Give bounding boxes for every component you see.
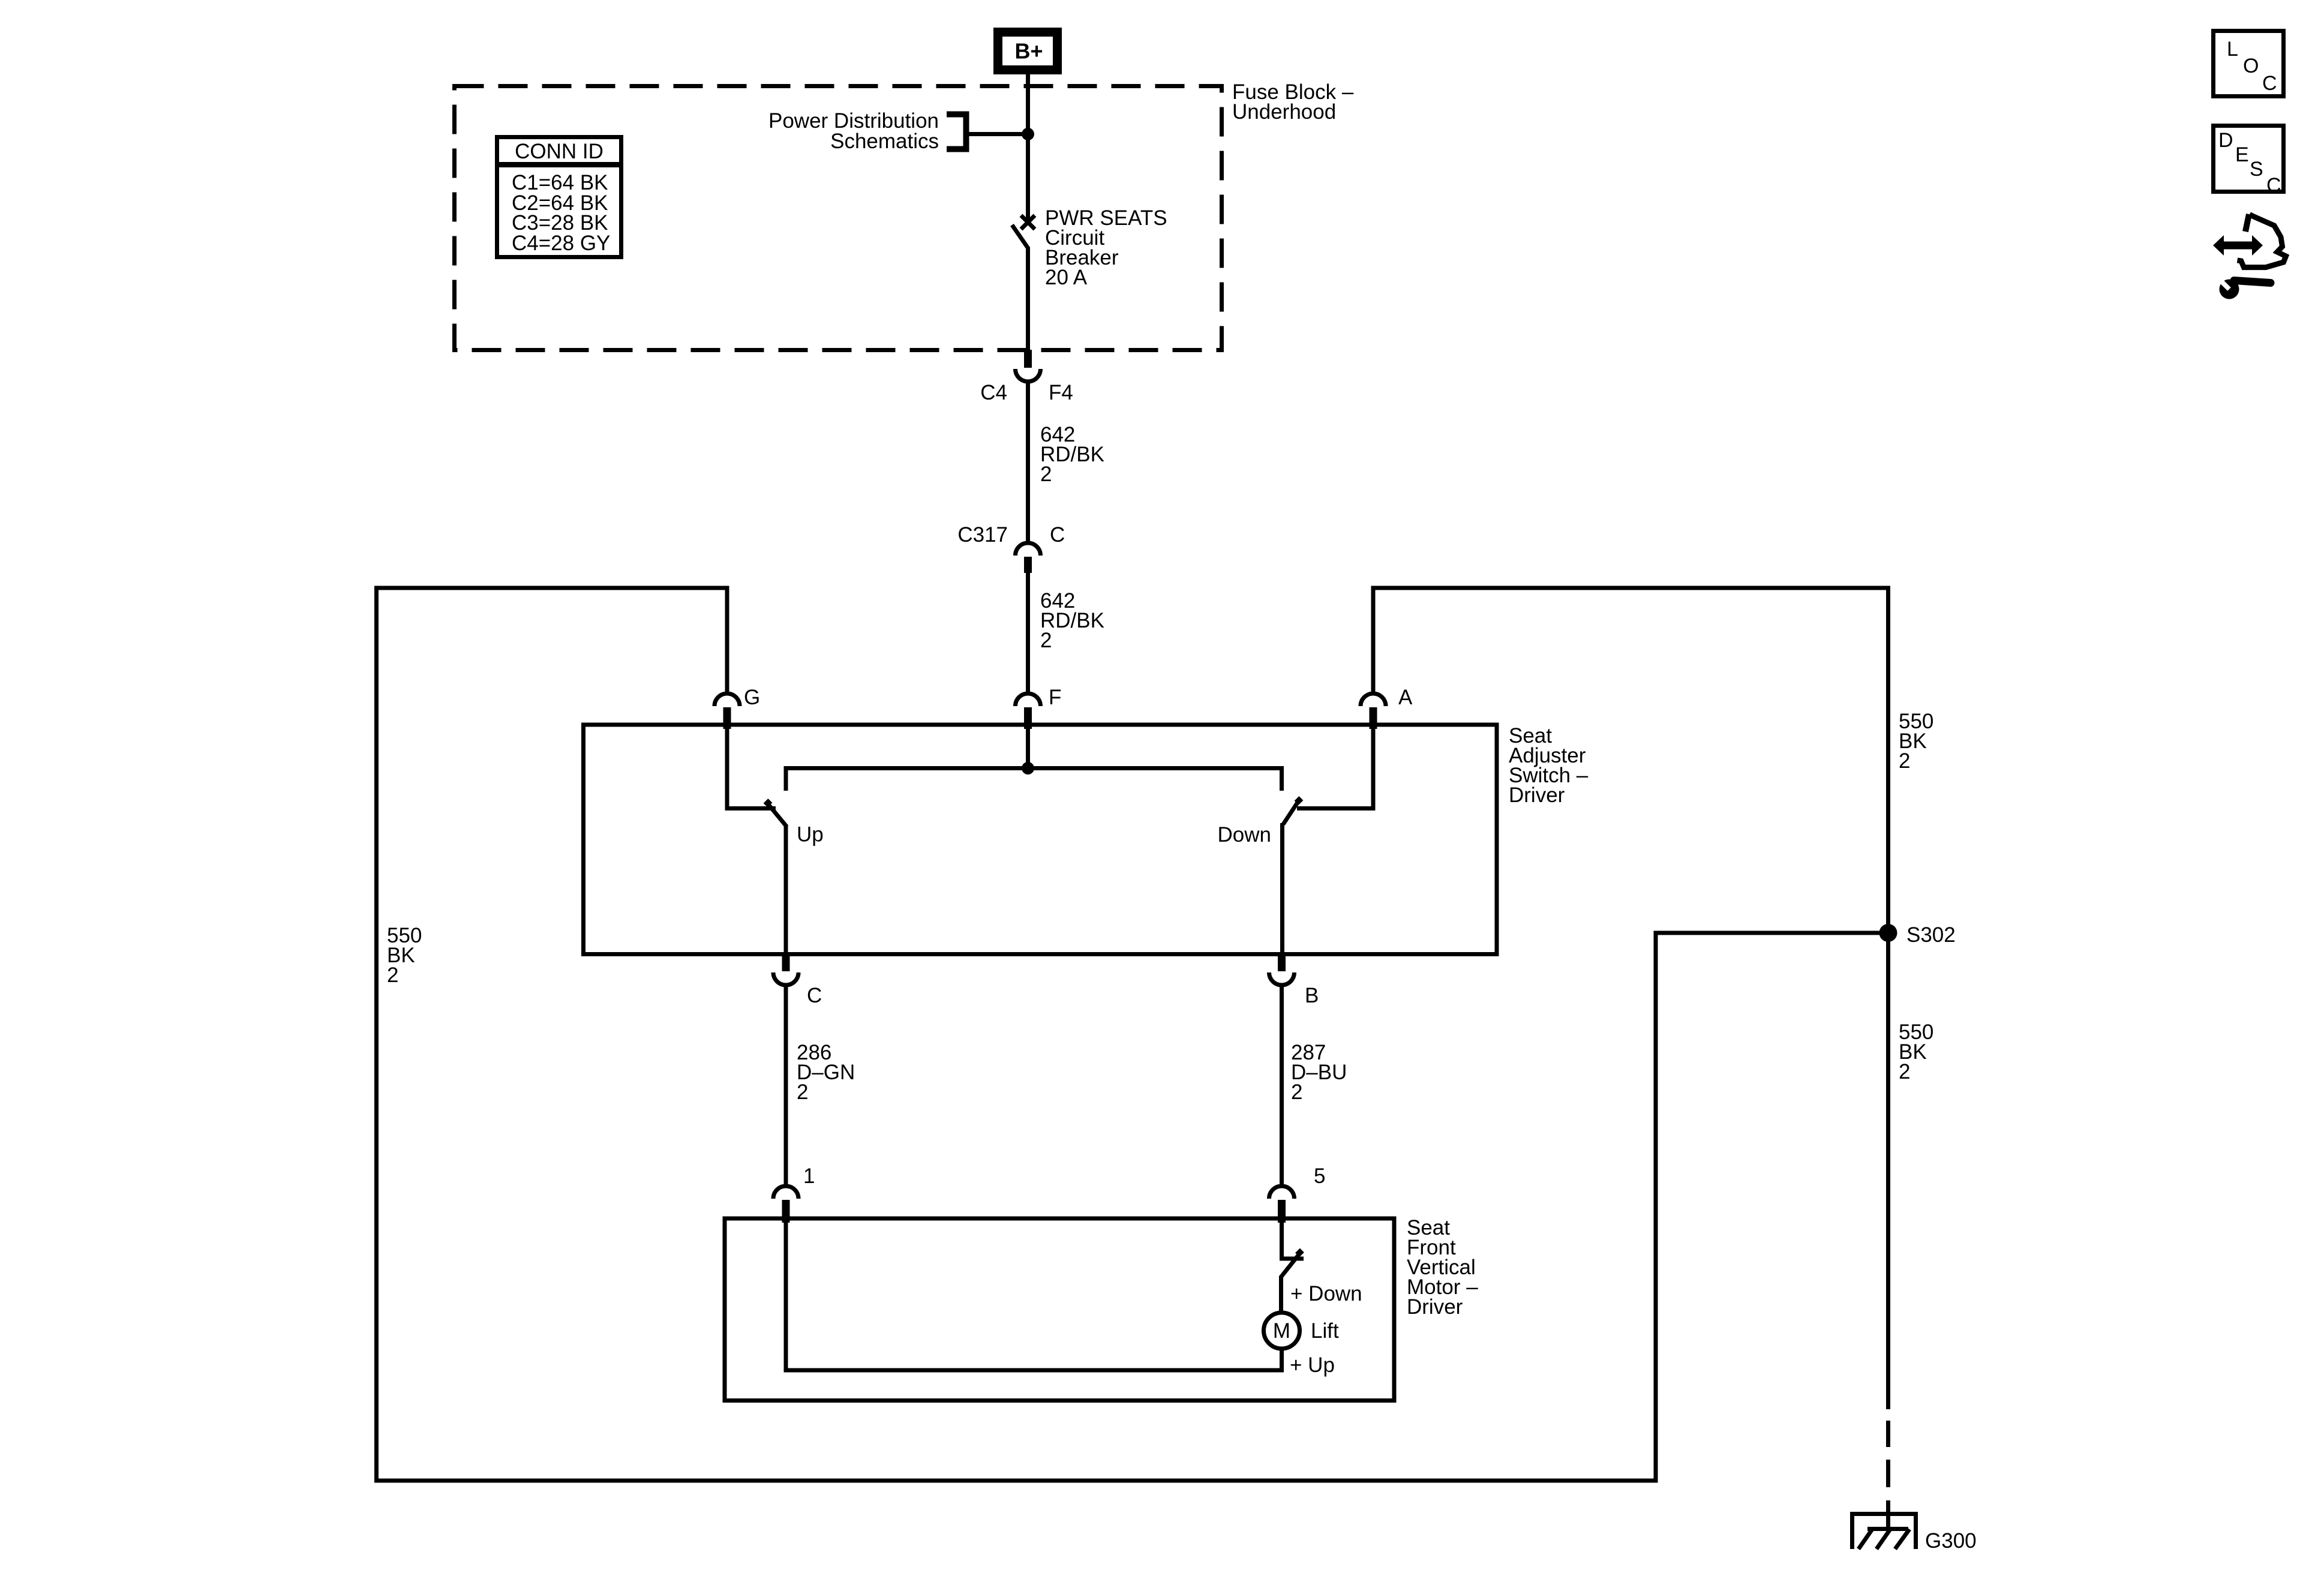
motor M letter — [1273, 1319, 1290, 1343]
wire motor + Up path — [786, 1220, 1282, 1370]
wire Down blade to terminal B — [1280, 823, 1284, 956]
Down label — [1218, 823, 1271, 846]
wire label 550 BK 2 (lower right) — [1899, 1020, 1933, 1083]
svg-text:A: A — [1398, 686, 1413, 709]
B+ power symbol — [998, 32, 1058, 70]
svg-text:2: 2 — [1899, 749, 1910, 773]
wire 287 D-BU — [1280, 984, 1284, 1185]
terminal B label — [1305, 984, 1319, 1007]
svg-text:F4: F4 — [1049, 381, 1073, 404]
fuse block label — [1232, 80, 1354, 124]
switch blade Up — [767, 803, 787, 827]
svg-text:2: 2 — [1291, 1080, 1302, 1104]
svg-text:C4: C4 — [980, 381, 1007, 404]
svg-text:C: C — [2266, 174, 2281, 197]
wire B+ to fuse block — [1026, 73, 1030, 90]
wire bracket to main feed — [966, 132, 1028, 136]
wire label 642 RD/BK 2 (upper) — [1040, 423, 1104, 486]
svg-text:2: 2 — [387, 963, 398, 987]
connector C317 pin — [1024, 557, 1032, 573]
terminal 5 label — [1314, 1164, 1325, 1188]
+ Up label — [1290, 1353, 1335, 1377]
svg-text:2: 2 — [1040, 629, 1052, 652]
+ Down label — [1290, 1282, 1362, 1305]
svg-text:Underhood: Underhood — [1232, 100, 1336, 124]
seat adjuster switch box — [584, 725, 1497, 954]
svg-text:O: O — [2243, 55, 2259, 77]
DESC icon box — [2214, 126, 2284, 192]
wire F inside switch — [1026, 727, 1030, 769]
wire G inside switch — [727, 727, 776, 809]
wire Up blade to terminal C — [784, 825, 788, 956]
svg-text:M: M — [1273, 1319, 1290, 1343]
svg-text:CONN ID: CONN ID — [515, 140, 603, 163]
connector B cup — [1269, 972, 1295, 985]
connector G dome — [714, 694, 740, 706]
switch blade Up tick — [766, 801, 770, 805]
svg-text:L: L — [2227, 38, 2238, 61]
circuit breaker label — [1045, 206, 1167, 289]
connector 1 pin — [782, 1200, 790, 1223]
connector C317 label — [957, 523, 1008, 547]
CONN ID title — [515, 140, 603, 163]
wire blade to motor — [1279, 1276, 1283, 1313]
switch blade Down — [1283, 801, 1299, 825]
fuse block box (dashed) — [455, 86, 1222, 350]
terminal A label — [1398, 686, 1413, 709]
wire A inside switch — [1297, 727, 1373, 809]
svg-text:S: S — [2250, 158, 2263, 181]
connector G pin — [723, 707, 731, 729]
svg-text:E: E — [2235, 143, 2249, 166]
connector C4 label — [980, 381, 1007, 404]
ground G300 symbol — [1850, 1512, 1918, 1549]
svg-text:5: 5 — [1314, 1164, 1325, 1188]
power distribution bracket — [947, 115, 966, 149]
connector C pin — [782, 956, 790, 971]
CONN ID table box — [497, 137, 621, 257]
svg-text:1: 1 — [803, 1164, 815, 1188]
wire 642 RD/BK segment 2 — [1026, 573, 1030, 695]
connector B pin — [1278, 956, 1286, 971]
splice S302 dot — [1879, 924, 1897, 942]
svg-text:Driver: Driver — [1407, 1295, 1463, 1319]
connector 5 dome — [1269, 1186, 1295, 1199]
svg-text:G: G — [744, 686, 760, 709]
svg-text:Up: Up — [797, 823, 824, 846]
svg-text:Driver: Driver — [1509, 784, 1565, 807]
svg-text:+ Down: + Down — [1290, 1282, 1362, 1305]
svg-text:2: 2 — [797, 1080, 808, 1104]
connector C317 dome — [1016, 543, 1041, 556]
terminal G label — [744, 686, 760, 709]
wire 642 RD/BK segment 1 — [1026, 380, 1030, 544]
svg-text:D: D — [2218, 129, 2233, 152]
wire label 642 RD/BK 2 (lower) — [1040, 589, 1104, 652]
svg-text:G300: G300 — [1925, 1529, 1977, 1553]
connector 1 dome — [773, 1186, 798, 1199]
svg-text:C4=28 GY: C4=28 GY — [512, 232, 610, 255]
DESC icon letters — [2218, 129, 2281, 197]
switch blade Down tick — [1297, 798, 1301, 803]
Up label — [797, 823, 824, 846]
wire label 286 D-GN 2 — [797, 1041, 855, 1104]
connector C4 cup — [1016, 369, 1041, 382]
motor M circle — [1264, 1313, 1300, 1349]
svg-text:F: F — [1049, 686, 1061, 709]
adjust icon wrench — [2219, 279, 2271, 299]
junction dot power distribution tap — [1022, 128, 1034, 140]
wire 286 D-GN — [784, 984, 788, 1185]
wire breaker to connector C4 — [1026, 247, 1030, 350]
wire label 550 BK 2 (left) — [387, 924, 422, 987]
connector 5 pin — [1278, 1200, 1286, 1223]
svg-text:Down: Down — [1218, 823, 1271, 846]
wire S302 to ground (solid) — [1886, 933, 1890, 1409]
wire label 550 BK 2 (upper right) — [1899, 710, 1933, 773]
connector C cup — [773, 972, 798, 985]
S302 label — [1906, 923, 1956, 947]
svg-text:C: C — [2262, 72, 2277, 95]
wire feed to circuit breaker — [1026, 88, 1030, 223]
svg-text:Schematics: Schematics — [830, 130, 939, 153]
svg-text:B+: B+ — [1014, 39, 1043, 64]
svg-text:C: C — [1050, 523, 1065, 547]
svg-text:2: 2 — [1899, 1060, 1910, 1083]
terminal C label at C317 — [1050, 523, 1065, 547]
CONN ID header separator — [495, 162, 621, 167]
terminal C label — [807, 984, 822, 1007]
connector F dome — [1016, 694, 1041, 706]
CONN ID rows — [512, 171, 610, 255]
power distribution reference label — [768, 109, 939, 153]
svg-text:B: B — [1305, 984, 1319, 1007]
motor breaker blade — [1281, 1252, 1301, 1277]
terminal F label — [1049, 686, 1061, 709]
svg-text:C: C — [807, 984, 822, 1007]
wire switch common rail — [786, 769, 1282, 791]
circuit breaker PWR SEATS X mark — [1021, 215, 1035, 229]
G300 label — [1925, 1529, 1977, 1553]
svg-text:S302: S302 — [1906, 923, 1956, 947]
connector A pin — [1370, 707, 1377, 729]
svg-text:2: 2 — [1040, 463, 1052, 486]
Lift label — [1311, 1319, 1339, 1343]
seat front vertical motor box — [725, 1218, 1394, 1401]
svg-text:C317: C317 — [957, 523, 1008, 547]
terminal 1 label — [803, 1164, 815, 1188]
svg-text:20 A: 20 A — [1045, 266, 1088, 289]
svg-text:Lift: Lift — [1311, 1319, 1339, 1343]
junction dot switch common — [1022, 762, 1034, 775]
terminal F4 label — [1049, 381, 1073, 404]
motor breaker blade tick — [1298, 1251, 1302, 1255]
circuit breaker blade — [1012, 225, 1028, 248]
adjust icon part outline — [2238, 214, 2286, 268]
LOC icon letters — [2227, 38, 2277, 95]
connector F pin — [1024, 707, 1032, 729]
seat front vertical motor label — [1407, 1216, 1478, 1319]
svg-text:+ Up: + Up — [1290, 1353, 1335, 1377]
adjust icon arrow — [2213, 235, 2263, 256]
connector C4 pin F4 — [1024, 350, 1032, 368]
wire label 287 D-BU 2 — [1291, 1041, 1347, 1104]
wire motor + Down entry — [1282, 1220, 1304, 1259]
connector A dome — [1361, 694, 1386, 706]
wire ground loop left — [377, 588, 1888, 1481]
LOC icon box — [2214, 31, 2284, 97]
wire A branch to right bus — [1373, 588, 1888, 933]
seat adjuster switch label — [1509, 724, 1589, 807]
wire dashed to G300 — [1886, 1421, 1890, 1531]
